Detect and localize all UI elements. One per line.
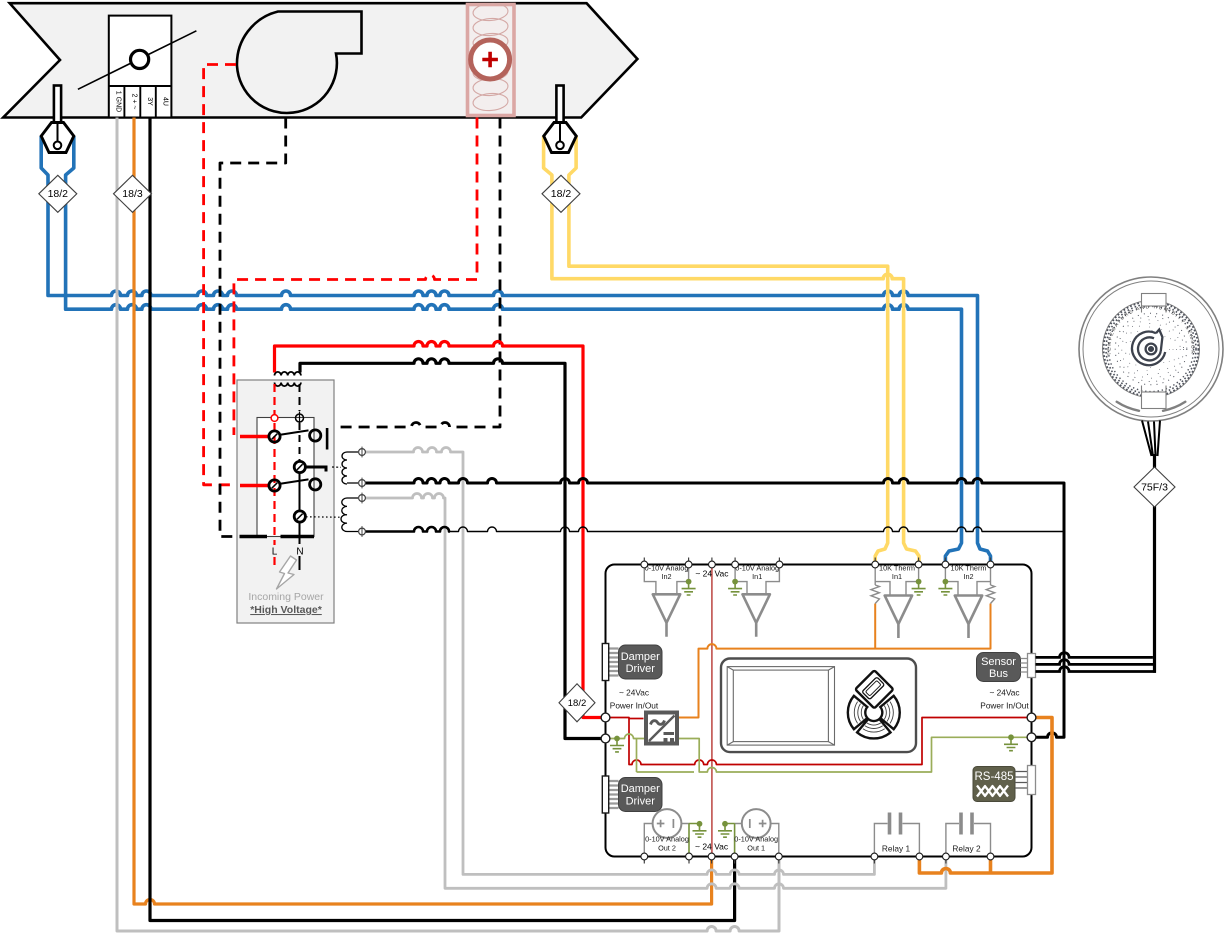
duct terminal box (damper actuator) [109, 16, 172, 118]
wire black dashed heater switched line [333, 118, 500, 428]
relay contact K1 (heater) [240, 428, 327, 450]
wire dark-red stub to power supply [629, 718, 644, 720]
op-amp analog in2 [653, 594, 680, 637]
svg-text:Driver: Driver [626, 796, 656, 808]
ground analog in1 common [728, 582, 742, 595]
analog out 1 source [742, 809, 771, 838]
wire olive 24V common internal [606, 734, 1032, 772]
ground analog out 1 [718, 824, 732, 837]
cable label 18/3 duct box [114, 175, 152, 212]
relay coil contact node K1 [294, 461, 341, 472]
thermistor pull-up R1 [871, 585, 879, 604]
svg-text:1 GND: 1 GND [115, 91, 122, 112]
ground 24V common left [610, 739, 624, 752]
relay coil RC1 [342, 452, 347, 484]
N solid segments [299, 472, 301, 570]
fan icon on display [848, 696, 900, 739]
controller enclosure U1 [606, 565, 1032, 857]
svg-text:~ 24Vac: ~ 24Vac [989, 688, 1019, 698]
sensor bus line 1 [1036, 653, 1153, 658]
svg-text:18/3: 18/3 [122, 188, 143, 200]
RS-485 connector wires [1015, 772, 1028, 789]
relay contact K2 (fan) [240, 479, 321, 491]
svg-text:75F/3: 75F/3 [1141, 481, 1168, 493]
svg-text:L: L [272, 547, 278, 558]
op-amp therm in1 [885, 596, 912, 639]
return air temp probe [544, 86, 577, 153]
wire black relay2 coil B [362, 527, 450, 532]
twisted pair glyph [977, 786, 1008, 797]
wire gray GND (duct 1GND to Analog Out1 -) [117, 118, 779, 932]
ground analog in2 common [682, 582, 696, 595]
svg-text:2 + ~: 2 + ~ [130, 94, 137, 110]
terminal stubs bottom [644, 857, 990, 864]
svg-text:Out 2: Out 2 [658, 844, 676, 853]
svg-text:N: N [296, 547, 303, 558]
wire yellow return-temp pair A (probe to 10K Therm In1) [569, 136, 888, 565]
terminal stubs top [644, 558, 990, 565]
neutral bus bottom [240, 535, 315, 539]
sensor bus line 3 [1036, 667, 1157, 672]
analog out 2 source [653, 809, 682, 838]
sensor face dotted texture [1104, 302, 1199, 397]
svg-text:Damper: Damper [621, 651, 660, 663]
fan blower B1 [237, 12, 362, 113]
relay 2 contact [946, 813, 991, 857]
wire gray relay1 coil A (to Relay 1) [362, 448, 874, 875]
wire black 24V common (transformer to controller) [300, 359, 606, 739]
supply air temp probe [41, 86, 74, 153]
svg-text:18/2: 18/2 [48, 188, 69, 200]
ground therm1 common [912, 582, 926, 595]
op-amp therm in2 [955, 596, 982, 639]
wire orange 24Vac to relays (right) [919, 718, 1052, 874]
svg-text:0-10V Analog: 0-10V Analog [734, 835, 778, 844]
wire yellow return-temp pair B [544, 136, 919, 565]
relay 1 contact [874, 813, 919, 857]
sensor clips [1142, 294, 1167, 307]
terminal circles left/right edges [601, 713, 1036, 743]
svg-text:18/2: 18/2 [568, 698, 587, 709]
wire blue supply-temp pair B [66, 136, 962, 565]
heater symbol (circled +) [471, 40, 510, 79]
ground 24V common right [1004, 737, 1018, 750]
svg-text:Sensor: Sensor [981, 656, 1016, 668]
svg-text:Out 1: Out 1 [747, 844, 765, 853]
display unit (thermostat controller face) [721, 659, 916, 753]
sensor logo [1132, 330, 1165, 366]
wire gray relay2 coil A (to Relay 2) [362, 494, 946, 889]
svg-text:*High Voltage*: *High Voltage* [250, 604, 322, 616]
cable label 75F/3 [1134, 467, 1175, 507]
svg-text:~ 24Vac: ~ 24Vac [619, 688, 649, 698]
wire dark-red 24V hot internal [606, 718, 1032, 765]
wire orange internal (power supply to 10K pull-ups) [678, 604, 991, 718]
op-amp analog in1 [743, 594, 770, 637]
svg-text:~ 24 Vac: ~ 24 Vac [695, 842, 729, 852]
wire olive bypass loop around power supply [636, 739, 638, 773]
damper driver 2 box [619, 778, 663, 812]
L feed (red dashed) [273, 384, 275, 570]
wire salmon ~24Vac internal bus [711, 565, 713, 857]
wire red 24V hot (transformer to controller) [275, 342, 606, 718]
wire black relay1 coil B (to 24Vac power in/out) [362, 479, 1064, 738]
cable label 18/2 controller power [559, 684, 595, 722]
svg-text:Relay 1: Relay 1 [882, 844, 911, 854]
svg-text:Relay 2: Relay 2 [952, 844, 981, 854]
ground analog out 2 [693, 824, 707, 837]
svg-text:18/2: 18/2 [551, 188, 572, 200]
wire black dashed line-voltage fan N [220, 118, 286, 537]
svg-text:In2: In2 [661, 572, 671, 581]
N feed dashed to contact [299, 384, 301, 411]
wire orange thermistor1 pull-up [874, 604, 876, 649]
incoming power box (contactor / transformer) [237, 380, 334, 623]
cable label 18/2 return probe [542, 175, 580, 212]
node L top [271, 415, 278, 422]
inner contact box [257, 418, 314, 537]
RC2 terminals [359, 493, 366, 537]
node N top [296, 412, 304, 425]
duct (air handler arrow outline) [3, 3, 637, 117]
ground therm2 common [938, 582, 952, 595]
power supply PS1 (AC/DC) [646, 713, 677, 744]
wire black relay2 coil B thin continuation [450, 527, 1064, 532]
wire red dashed line-voltage fan L [204, 65, 236, 485]
svg-text:3Y: 3Y [146, 97, 153, 106]
svg-text:~ 24 Vac: ~ 24 Vac [695, 569, 729, 579]
wires analog out 2 [644, 824, 689, 857]
svg-text:Power In/Out: Power In/Out [980, 701, 1029, 711]
display screen bevel [727, 667, 834, 746]
svg-text:4U: 4U [162, 97, 169, 106]
svg-text:Incoming Power: Incoming Power [248, 591, 324, 603]
green ground link out 1 [725, 824, 735, 857]
connector damper driver 1 [609, 649, 619, 676]
sensor bus line 2 [1036, 660, 1157, 665]
wall sensor 75F (temperature and humidity) [1079, 277, 1223, 421]
svg-text:In1: In1 [892, 572, 902, 581]
connector sensor bus [1028, 654, 1036, 678]
damper blade symbol [78, 31, 196, 90]
svg-text:In2: In2 [963, 572, 973, 581]
heating coil HC1 [468, 2, 515, 115]
sensor bus box [977, 653, 1021, 682]
svg-text:In1: In1 [752, 572, 762, 581]
svg-text:Driver: Driver [626, 663, 656, 675]
cable label 18/2 supply probe [39, 175, 77, 212]
connector RS-485 [1028, 766, 1036, 795]
terminal circles top [641, 561, 994, 568]
connector damper driver 2 [609, 781, 619, 808]
wire black fan-speed (duct 3Y to Analog Out1 +) [150, 118, 735, 921]
damper driver 1 box [619, 645, 663, 679]
wire blue supply-temp pair A (probe to 10K Therm In2) [41, 136, 990, 565]
thermistor pull-up R2 [986, 585, 994, 604]
terminal circles bottom [641, 853, 994, 860]
wire red dashed line-voltage heater L [234, 118, 477, 436]
wire orange 24Vac (duct 2~ to ~24Vac terminal) [134, 118, 712, 905]
sensor bus cable (3 conductors) [1142, 421, 1160, 457]
svg-text:RS-485: RS-485 [975, 771, 1014, 783]
green ground link out 2 [689, 824, 700, 857]
wires analog input channels [644, 565, 990, 596]
sensor bus connector wires [1021, 659, 1028, 673]
sensor bottom slots [1117, 402, 1186, 411]
svg-text:Power In/Out: Power In/Out [610, 701, 659, 711]
terminal strip cells 1GND 2~ 3Y 4U [109, 86, 172, 118]
svg-text:Bus: Bus [989, 668, 1008, 680]
wire orange relay2 stub [989, 857, 993, 874]
RS-485 box [973, 767, 1015, 802]
svg-text:Damper: Damper [621, 783, 660, 795]
RC1 terminals [359, 447, 366, 489]
transformer T1 primary/secondary coils [275, 372, 301, 386]
wires analog out 1 [735, 824, 779, 857]
relay coil RC2 [341, 498, 347, 532]
lightning bolt icon [277, 556, 297, 589]
relay coil contact node K2 [294, 511, 341, 522]
svg-text:0-10V Analog: 0-10V Analog [645, 835, 689, 844]
